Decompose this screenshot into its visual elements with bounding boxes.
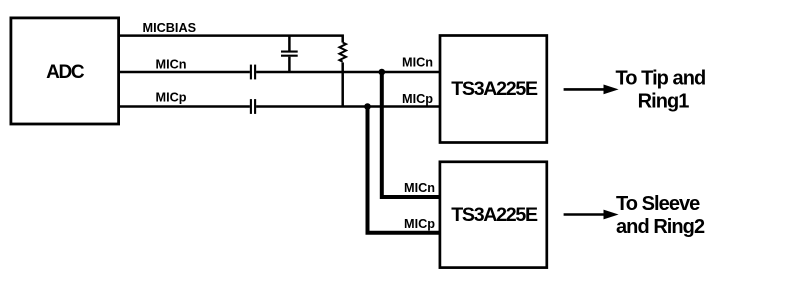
capacitor C3 (shunt, MICBIAS to MICn) [281, 51, 298, 53]
wire C3 bottom to MICn line [288, 57, 291, 72]
block U2 TS3A225E (bottom) [440, 162, 547, 268]
svg-text:and Ring2: and Ring2 [616, 216, 705, 238]
svg-text:MICBIAS: MICBIAS [143, 21, 197, 35]
wire MICn from C1 to U1 pin MICn [256, 71, 440, 74]
resistor R1 [339, 43, 346, 62]
svg-text:To Sleeve: To Sleeve [616, 193, 700, 215]
svg-text:MICn: MICn [156, 57, 187, 71]
svg-text:MICp: MICp [156, 90, 187, 104]
svg-text:MICn: MICn [404, 181, 435, 195]
svg-text:MICp: MICp [404, 217, 435, 231]
svg-text:TS3A225E: TS3A225E [451, 78, 538, 100]
arrow output U1 [564, 88, 605, 91]
wire MICp from C2 to U1 pin MICp [256, 105, 440, 108]
wire MICBIAS horizontal from ADC [119, 36, 343, 43]
wire MICp from ADC to C2 [119, 105, 250, 108]
svg-text:To Tip and: To Tip and [616, 67, 706, 89]
svg-text:ADC: ADC [46, 62, 85, 83]
junction node on MICn [379, 69, 386, 76]
block ADC [11, 18, 119, 124]
junction node on MICp [364, 103, 371, 110]
wire MICp junction to U2 pin MICp (thick) [368, 107, 441, 233]
block U1 TS3A225E (top) [440, 36, 547, 143]
svg-text:Ring1: Ring1 [638, 91, 690, 113]
capacitor C1 (series, MICn) [250, 65, 252, 80]
wire MICn from ADC to C1 [119, 71, 250, 74]
svg-text:MICp: MICp [402, 92, 433, 106]
svg-text:TS3A225E: TS3A225E [451, 204, 538, 226]
capacitor C2 (series, MICp) [250, 99, 252, 114]
wire MICBIAS to capacitor C3 [288, 36, 291, 51]
wire resistor bottom to MICp line [341, 62, 344, 106]
wire MICn junction to U2 pin MICn (thick) [382, 72, 440, 197]
arrow output U2 [564, 213, 605, 216]
svg-text:MICn: MICn [402, 56, 433, 70]
